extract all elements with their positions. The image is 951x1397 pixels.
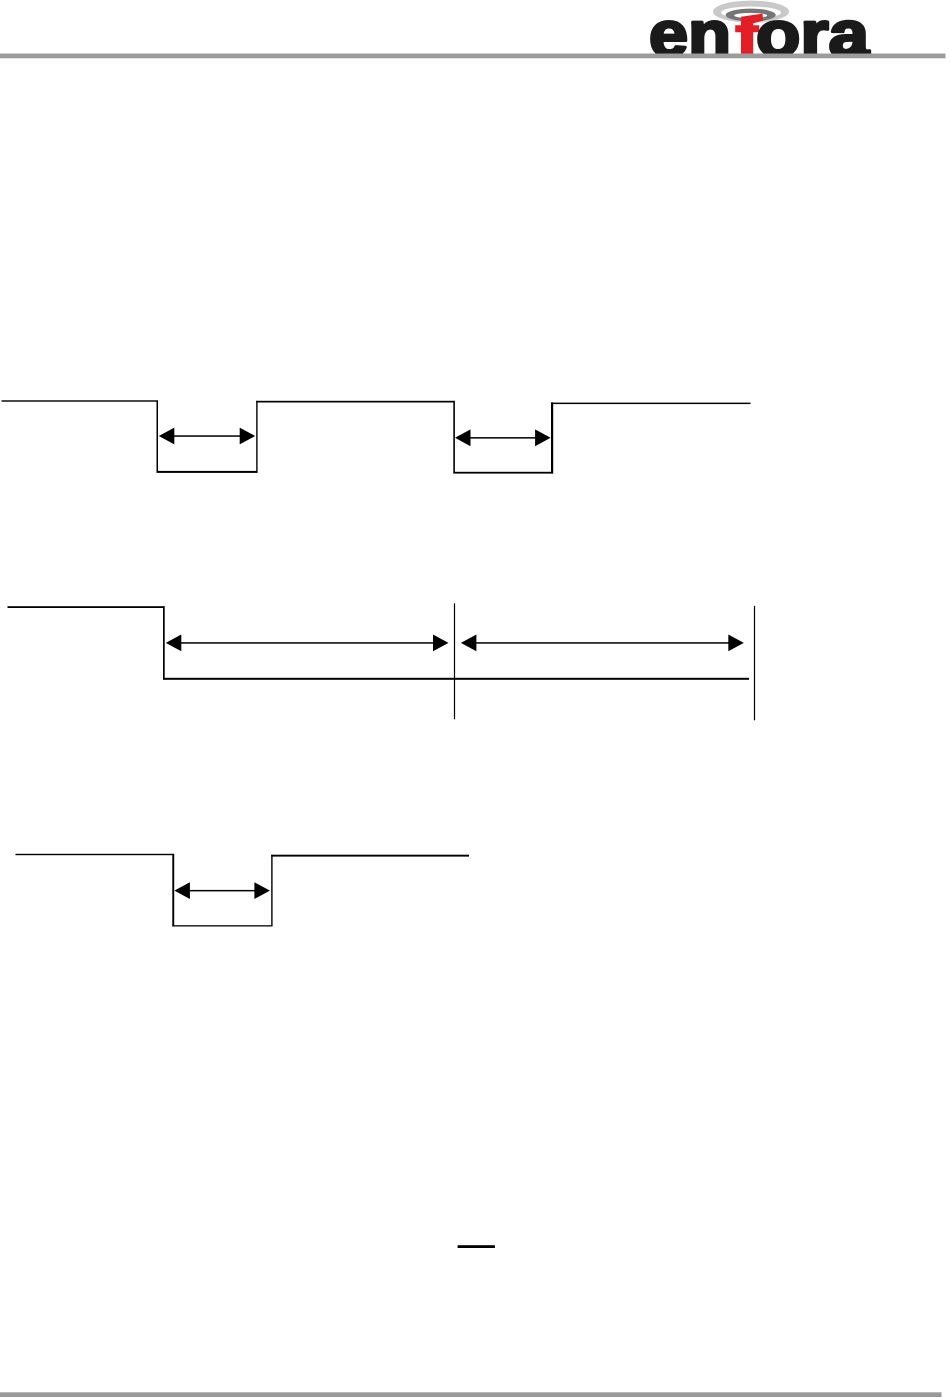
wave3 arrow left head xyxy=(174,882,190,899)
wave1 arrow 2 right head xyxy=(535,429,551,446)
wave2 arrow A left head xyxy=(166,635,182,652)
wave3 arrow right head xyxy=(254,882,270,899)
enfora logo inner ring xyxy=(726,9,776,22)
wave2 marker line 1 xyxy=(454,603,455,719)
wave1 arrow 1 left head xyxy=(159,428,175,445)
svg-text:ora: ora xyxy=(756,0,869,70)
wave2 arrow B right head xyxy=(728,635,744,652)
wave1 high segment 1 xyxy=(2,400,158,401)
wave1 rising edge 2 xyxy=(551,402,553,473)
wave1 arrow 1 shaft xyxy=(168,435,246,437)
wave2 falling edge xyxy=(163,606,165,680)
wave1 arrow 1 right head xyxy=(240,428,256,445)
wave1 low segment 2 xyxy=(453,472,553,474)
wave3 arrow shaft xyxy=(183,890,261,892)
wave2 arrow B left head xyxy=(461,635,477,652)
wave3 high segment 2 xyxy=(271,855,469,857)
wave1 falling edge 2 xyxy=(453,401,455,473)
enfora logo outer ring xyxy=(713,1,789,23)
wave3 falling edge xyxy=(172,854,174,927)
wave1 low segment 1 xyxy=(157,471,258,473)
wave3 high segment 1 xyxy=(16,854,174,855)
wave2 low segment xyxy=(163,678,749,680)
wave1 high segment 2 xyxy=(256,401,454,403)
wave2 high segment xyxy=(8,606,165,608)
wave1 high segment 3 xyxy=(551,403,751,405)
overline mark xyxy=(458,1245,495,1248)
wave2 arrow A shaft xyxy=(175,642,440,644)
wave1 arrow 2 left head xyxy=(455,429,471,446)
wave2 arrow B shaft xyxy=(470,642,735,644)
wave1 falling edge 1 xyxy=(157,400,159,472)
enfora logo letter f xyxy=(735,14,763,56)
wave1 rising edge 1 xyxy=(256,401,257,473)
wave3 low segment xyxy=(172,925,272,926)
wave2 arrow A right head xyxy=(433,635,449,652)
svg-text:en: en xyxy=(649,0,731,70)
header rule xyxy=(0,54,946,59)
wave2 marker line 2 xyxy=(754,606,755,720)
wave3 rising edge xyxy=(271,855,272,927)
wave1 arrow 2 shaft xyxy=(464,437,542,439)
footer rule xyxy=(0,1392,942,1397)
